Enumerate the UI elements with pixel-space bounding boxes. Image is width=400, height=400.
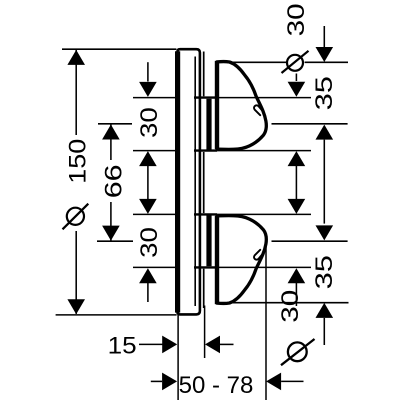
svg-text:35: 35 bbox=[311, 76, 338, 110]
svg-text:30: 30 bbox=[136, 227, 163, 258]
svg-text:150: 150 bbox=[64, 139, 91, 184]
svg-text:30: 30 bbox=[277, 290, 304, 323]
svg-text:30: 30 bbox=[136, 107, 163, 138]
svg-text:15: 15 bbox=[108, 332, 137, 359]
svg-text:30: 30 bbox=[283, 3, 310, 36]
svg-text:66: 66 bbox=[100, 165, 127, 199]
svg-text:35: 35 bbox=[311, 255, 338, 289]
svg-text:50 - 78: 50 - 78 bbox=[179, 372, 254, 399]
